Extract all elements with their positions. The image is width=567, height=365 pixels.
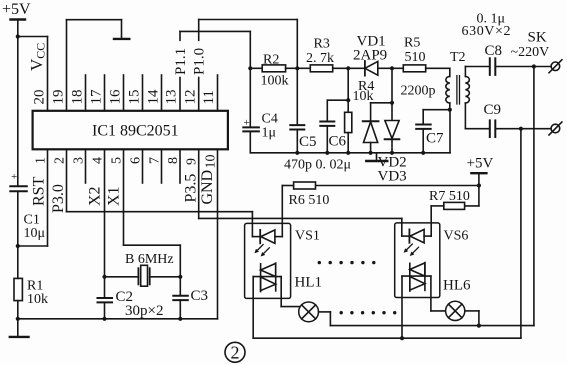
svg-text:4: 4	[91, 157, 106, 164]
svg-text:C8: C8	[485, 43, 503, 59]
svg-text:3: 3	[72, 157, 87, 164]
repetition dots upper	[318, 261, 376, 264]
svg-text:12: 12	[182, 90, 198, 105]
svg-text:6: 6	[129, 157, 144, 164]
svg-text:7: 7	[148, 157, 163, 164]
svg-text:470p 0. 02μ: 470p 0. 02μ	[284, 158, 351, 173]
wire primary bottom to C7 top	[423, 109, 450, 111]
svg-text:10: 10	[204, 155, 219, 169]
wire RST pin1 to C1/R1 node	[18, 245, 48, 247]
ground symbol bottom-left	[10, 319, 29, 337]
pin 17 stub	[89, 75, 105, 111]
terminal SK bottom	[549, 122, 562, 135]
wire VD2 top link	[371, 102, 392, 104]
svg-text:2: 2	[53, 157, 68, 164]
wire P3.0 to VS1 LED cathode	[67, 212, 253, 237]
wire C9 node down right side	[520, 129, 522, 339]
svg-text:2AP9: 2AP9	[353, 48, 387, 64]
svg-text:20: 20	[32, 90, 48, 105]
ground bar top (pin19)	[114, 38, 129, 40]
wire secondary top to C8	[465, 66, 489, 68]
pin 11 stub	[201, 75, 217, 111]
capacitor C9	[484, 102, 551, 137]
svg-text:19: 19	[51, 90, 67, 105]
node C9/terminal dot	[519, 127, 523, 131]
capacitor C2	[98, 277, 134, 319]
wire analog bottom rail	[250, 152, 450, 154]
wire rail A (lamps common to C8 side)	[330, 325, 534, 327]
node C2/rail dot	[102, 317, 106, 321]
wire secondary bottom to C9	[465, 128, 489, 130]
node A (+5V junction dot)	[16, 34, 20, 38]
svg-text:P1.1: P1.1	[173, 48, 189, 75]
svg-text:X2: X2	[87, 186, 104, 206]
pin 8 stub	[166, 149, 181, 183]
svg-text:C7: C7	[426, 131, 444, 147]
resistor R4 10k	[345, 68, 375, 153]
node C5/rail dot	[295, 151, 299, 155]
pin 16 stub	[108, 75, 124, 111]
node R3/VD1/R4 dot	[346, 66, 350, 70]
wire primary bottom to rail corner	[449, 110, 451, 153]
triac VS1	[253, 263, 281, 292]
svg-text:P3.0: P3.0	[50, 184, 67, 213]
svg-text:C5: C5	[299, 134, 317, 150]
node T2 primary bottom dot	[448, 108, 452, 112]
LED arrows VS1	[254, 245, 269, 257]
svg-text:17: 17	[89, 89, 105, 105]
svg-text:HL1: HL1	[295, 275, 323, 291]
wire P1.0 to R2 right	[199, 20, 298, 69]
svg-text:B 6MHz: B 6MHz	[125, 252, 174, 267]
svg-text:RST: RST	[31, 176, 48, 206]
svg-text:100k: 100k	[261, 74, 289, 89]
capacitor C8	[485, 43, 551, 75]
LED VS6	[402, 229, 431, 242]
lamp HL1	[299, 302, 319, 322]
terminal SK top	[549, 60, 562, 73]
svg-text:C9: C9	[484, 102, 502, 118]
svg-text:VS1: VS1	[295, 229, 320, 244]
svg-text:8: 8	[166, 157, 181, 164]
wire C8 node down right side	[533, 67, 535, 326]
resistor R2 100k	[250, 52, 297, 88]
wire R7 left down to VS6 LED anode	[430, 206, 432, 236]
svg-text:16: 16	[108, 89, 124, 105]
wire VS6 triac right lead to lamp HL6	[431, 276, 446, 311]
svg-text:2. 7k: 2. 7k	[306, 51, 334, 66]
node VD2/rail dot	[369, 151, 373, 155]
labels 0.1u 630Vx2 SK ~220V	[462, 12, 550, 61]
node C8/terminal dot	[532, 64, 536, 68]
labels VD2 VD3	[378, 155, 407, 185]
capacitor C4 1u	[243, 68, 278, 153]
node C6/rail dot	[325, 151, 329, 155]
node VS6 lead/rail B dot	[400, 336, 404, 340]
svg-text:18: 18	[70, 90, 86, 105]
node +5V/R6/R7 dot	[477, 183, 481, 187]
node R2 left dot	[248, 66, 252, 70]
LED arrows VS6	[404, 244, 419, 256]
lamp HL6	[446, 301, 465, 320]
svg-text:P3.5: P3.5	[183, 174, 200, 203]
wire VS1 triac left lead down to rail B	[252, 277, 254, 339]
svg-text:+: +	[11, 171, 17, 183]
pin 3 stub	[72, 149, 87, 183]
wire ground rail (crystal/GND bus)	[18, 318, 218, 320]
pin 12 P1.0 lead	[182, 20, 207, 111]
svg-text:VD3: VD3	[378, 169, 407, 185]
pin 4 X2 lead	[87, 149, 106, 276]
node R2 right dot	[295, 66, 299, 70]
pin 5 X1 lead	[106, 149, 181, 276]
svg-text:SK: SK	[528, 30, 547, 46]
node C6 tap on R4 lead dot	[346, 98, 350, 102]
wire VS6 triac left lead down to rail B	[401, 276, 403, 338]
svg-text:9: 9	[185, 158, 200, 165]
crystal B 6MHz	[105, 252, 181, 286]
node HL6/rail A dot	[477, 324, 481, 328]
pin 9 P3.5 lead	[183, 149, 200, 218]
optocoupler VS6 box	[395, 223, 440, 298]
wire VD1 node down to VD2/VD3	[391, 68, 393, 103]
svg-text:1μ: 1μ	[262, 125, 277, 140]
svg-text:R6 510: R6 510	[289, 193, 330, 208]
resistor R1 10k	[14, 246, 48, 319]
capacitor C3	[173, 277, 208, 319]
svg-text:R7 510: R7 510	[429, 189, 470, 204]
pin 20 lead	[47, 37, 49, 111]
pin 1 RST lead	[31, 149, 49, 246]
LED VS1	[252, 230, 282, 243]
triac VS6	[402, 263, 431, 292]
svg-text:IC1 89C2051: IC1 89C2051	[92, 123, 179, 140]
svg-text:VCC: VCC	[27, 43, 48, 71]
svg-text:T2: T2	[450, 50, 466, 65]
svg-text:GND: GND	[199, 170, 216, 205]
svg-text:+5V: +5V	[467, 156, 494, 172]
pin 19 lead to top ground	[51, 20, 122, 111]
node VD1/R5 dot	[390, 66, 394, 70]
node R4/rail dot	[346, 151, 350, 155]
resistor R7 510	[429, 186, 479, 210]
node C7/rail dot	[421, 151, 425, 155]
optocoupler VS1 box	[245, 223, 291, 298]
resistor R3 2.7k	[297, 37, 348, 72]
svg-text:~220V: ~220V	[511, 45, 550, 60]
svg-text:30p×2: 30p×2	[125, 303, 163, 319]
diode VD3	[385, 103, 400, 153]
svg-text:P1.0: P1.0	[192, 48, 208, 75]
svg-text:11: 11	[201, 90, 217, 104]
resistor R5 510	[392, 36, 450, 72]
pin 10 GND lead	[199, 149, 219, 318]
capacitor C5 470p	[290, 68, 316, 153]
node VD2/VD3 top dot	[390, 101, 394, 105]
svg-text:C6: C6	[329, 134, 347, 150]
svg-text:C3: C3	[191, 288, 209, 304]
diode VD1 2AP9	[348, 34, 392, 76]
svg-text:630V×2: 630V×2	[462, 24, 512, 39]
wire P1.1 to R2 left	[180, 31, 250, 68]
resistor R6 510	[282, 182, 479, 208]
svg-text:R3: R3	[314, 37, 330, 52]
wire VS1 triac right lead to lamp HL1	[281, 277, 300, 307]
svg-text:2200p: 2200p	[401, 84, 436, 99]
node C3/rail dot	[178, 317, 182, 321]
svg-text:14: 14	[146, 89, 162, 105]
svg-text:5: 5	[110, 157, 125, 164]
svg-text:+5V: +5V	[2, 1, 31, 18]
wire P3.5 to VS6 LED cathode	[199, 218, 402, 236]
figure number 2 circled	[225, 342, 245, 362]
svg-text:R5: R5	[404, 36, 420, 51]
wire R6 left down to VS1 LED anode	[281, 186, 283, 237]
op IC1 89C2051 body	[33, 111, 228, 150]
pin 13 P1.1 lead	[164, 31, 189, 110]
ground symbol below rail	[366, 153, 387, 161]
pin 15 stub	[127, 75, 143, 111]
capacitor C7 2200p	[401, 84, 445, 153]
node VD3/rail dot	[390, 151, 394, 155]
svg-text:R2: R2	[263, 52, 279, 67]
transformer T2	[446, 50, 470, 129]
wire HL1 right to rail A	[319, 312, 331, 326]
svg-text:10k: 10k	[353, 89, 374, 104]
svg-text:10k: 10k	[27, 292, 48, 307]
svg-text:VS6: VS6	[444, 229, 469, 244]
pin 7 stub	[148, 149, 163, 183]
svg-text:10μ: 10μ	[24, 226, 46, 241]
node R1/ground rail dot	[16, 317, 20, 321]
wire +5V to pin 20	[18, 36, 48, 38]
svg-text:X1: X1	[106, 186, 123, 206]
wire left +5V rail down to C1	[17, 37, 19, 186]
svg-text:1: 1	[34, 157, 49, 164]
pin 6 stub	[129, 149, 144, 183]
capacitor C6 0.02u	[320, 100, 348, 153]
+5V supply right	[467, 156, 494, 186]
wire HL6 right to rail A	[465, 311, 479, 326]
repetition dots lower	[340, 311, 397, 314]
svg-text:15: 15	[127, 90, 143, 105]
svg-text:2: 2	[231, 343, 240, 363]
+5V supply top-left	[2, 1, 31, 37]
svg-text:510: 510	[405, 50, 426, 65]
pin 2 P3.0 lead	[50, 149, 68, 213]
capacitor C1 10u	[10, 171, 45, 246]
pin 14 stub	[146, 75, 162, 111]
label Vcc pin20	[27, 43, 48, 105]
svg-text:HL6: HL6	[443, 278, 471, 294]
diode VD2	[363, 103, 379, 153]
node X1/crystal dot	[178, 275, 182, 279]
wire rail B (triacs common to C9 side)	[253, 337, 521, 339]
pin 18 stub	[70, 75, 86, 111]
node RST junction dot	[16, 244, 20, 248]
svg-text:13: 13	[164, 90, 180, 105]
node X2/crystal dot	[102, 275, 106, 279]
